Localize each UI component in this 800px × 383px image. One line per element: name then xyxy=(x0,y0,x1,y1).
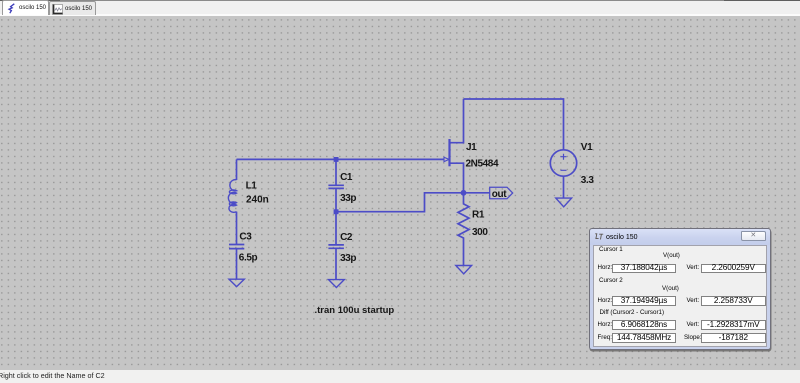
svg-text:6.5p: 6.5p xyxy=(239,253,258,264)
svg-text:L1: L1 xyxy=(246,181,258,192)
svg-text:33p: 33p xyxy=(340,253,356,264)
svg-text:.tran 100u startup: .tran 100u startup xyxy=(315,305,395,316)
svg-text:R1: R1 xyxy=(472,210,485,221)
svg-text:C3: C3 xyxy=(239,232,252,243)
svg-text:J1: J1 xyxy=(466,142,477,153)
svg-text:33p: 33p xyxy=(340,193,356,204)
svg-text:3.3: 3.3 xyxy=(581,175,595,186)
svg-text:300: 300 xyxy=(472,227,488,238)
svg-text:C2: C2 xyxy=(340,232,353,243)
svg-text:V1: V1 xyxy=(581,142,593,153)
svg-text:C1: C1 xyxy=(340,172,353,183)
svg-text:out: out xyxy=(492,189,507,200)
svg-text:2N5484: 2N5484 xyxy=(466,159,499,170)
svg-text:240n: 240n xyxy=(246,195,269,206)
